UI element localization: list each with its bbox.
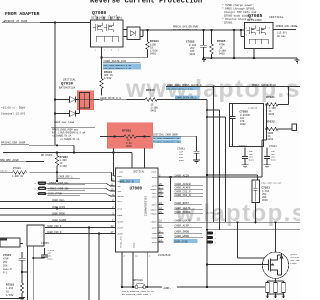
ground symbol right — [295, 58, 300, 63]
IC U7000 top labels — [119, 171, 157, 174]
gate resistor network box D7081 — [127, 27, 140, 40]
ground C7021 — [264, 165, 271, 168]
wire Q7080 to D7081 upper — [123, 29, 127, 31]
transistor Q7080 labels — [91, 10, 123, 19]
net label CHGR_DCID_R_N — [100, 96, 127, 100]
svg-text:CHGR_ACIN: CHGR_ACIN — [52, 206, 65, 209]
blue label CHGR_ACSB — [174, 239, 198, 243]
svg-text:PPVBL_P5S: PPVBL_P5S — [120, 235, 123, 248]
svg-text:U7000: U7000 — [130, 188, 143, 192]
svg-text:0402: 0402 — [249, 158, 255, 161]
svg-text:SMB_SVT_R: SMB_SVT_R — [120, 180, 134, 183]
testpoint pill ACSB — [207, 240, 214, 243]
svg-text:1 2: 1 2 — [134, 282, 137, 285]
wire into R7051 from left — [100, 136, 109, 138]
svg-text:0402: 0402 — [151, 109, 157, 112]
resistor R7065 (series) — [145, 98, 157, 102]
svg-text:CHGR_DCIN_OK_L: CHGR_DCIN_OK_L — [176, 97, 198, 100]
wire gate drive horizontal — [102, 57, 148, 59]
blue note gate drive — [166, 87, 200, 90]
resistor R7516 labels — [6, 284, 14, 298]
svg-text:CHG_GATE_DRIVE+3.3 mA: CHG_GATE_DRIVE+3.3 mA — [167, 87, 194, 90]
vertical Q7085 source to gnd bus — [253, 49, 255, 59]
wire ACSP long — [207, 229, 300, 231]
annotation 20mA max load — [54, 120, 75, 124]
diode body inside red box — [80, 93, 90, 109]
testpoint pill VFPWM — [38, 192, 47, 195]
svg-text:WMON: WMON — [152, 237, 158, 240]
svg-text:ACIN: ACIN — [117, 208, 123, 211]
testpoint pill SCL — [38, 181, 47, 184]
transistor Q7010 labels — [291, 253, 300, 265]
svg-text:PROT: PROT — [117, 175, 123, 178]
junction ACSP — [206, 229, 208, 231]
capacitor C7085 — [200, 30, 207, 58]
component outline box bottom-left — [27, 225, 44, 246]
svg-text:CSIN: CSIN — [152, 196, 158, 199]
node vertical ACIN divider — [262, 105, 267, 178]
junction gate branch — [206, 263, 208, 265]
capacitor C7021 — [264, 148, 270, 165]
IC right pin names — [151, 176, 158, 244]
svg-text:21322529: 21322529 — [158, 254, 171, 257]
vertical sense CSO_N down — [98, 234, 100, 300]
svg-text:CHGR_DCID_R_N: CHGR_DCID_R_N — [100, 97, 121, 100]
svg-text:Q7080.: Q7080. — [224, 22, 234, 25]
LGATE bus long — [164, 221, 301, 223]
svg-text:4: 4 — [118, 49, 120, 52]
pill pin numbers — [35, 182, 37, 196]
svg-text:O_GATOR: O_GATOR — [248, 107, 258, 110]
svg-text:ISL6259AHRTZ: ISL6259AHRTZ — [144, 196, 147, 216]
sense resistor stack bottom bar — [268, 293, 284, 297]
sense resistor R7011 — [266, 283, 270, 293]
wire routing L2 — [207, 117, 226, 222]
net label +PPBCIN_J5_CHGR — [3, 20, 28, 23]
table PP3V3 loads — [51, 127, 95, 129]
junction routing tap 1 — [206, 109, 208, 111]
net label PPBUS_AGATE_R right — [252, 84, 277, 87]
svg-text:3: 3 — [246, 34, 248, 37]
svg-text:LFPAK: LFPAK — [291, 262, 298, 265]
component box C7020 — [230, 104, 264, 147]
svg-text:LGATE: LGATE — [151, 221, 158, 224]
wire SDA to pin10 — [46, 188, 114, 191]
gnd bus bottom — [122, 286, 265, 288]
IC part number vertical — [144, 196, 147, 216]
junction stack gnd dots — [266, 296, 268, 298]
sense note row blue 2 — [153, 140, 182, 143]
long vertical gnd sense wire — [206, 100, 208, 288]
transistor Q7085 FET symbol B — [257, 26, 266, 36]
svg-text:SMOB: SMOB — [152, 232, 158, 235]
resistor R7022 — [267, 127, 293, 131]
ground R7516 — [19, 298, 25, 300]
thermistor box right — [292, 124, 297, 131]
resistor R7083 — [146, 30, 150, 58]
svg-text:1/16W: 1/16W — [104, 77, 112, 80]
capacitor C7056 — [41, 248, 48, 258]
svg-text:0402: 0402 — [240, 123, 246, 126]
svg-text:3: 3 — [111, 49, 113, 52]
bottom edge wire — [0, 298, 24, 300]
wire Q7080 to D7081 lower — [123, 36, 127, 38]
svg-text:SI7414DN: SI7414DN — [91, 16, 106, 19]
resistor R7516 — [20, 283, 24, 298]
capacitor C7023 labels — [261, 181, 282, 202]
junction LGATE/C7023 — [254, 221, 256, 223]
testpoint pill WMON — [207, 236, 214, 239]
wire gate to Q7010 — [207, 264, 263, 266]
net label CHGR_PROG — [52, 212, 65, 215]
capacitor C7015 — [19, 252, 26, 283]
blue note AGATE row 1 — [103, 63, 141, 66]
svg-text:2: 2 — [104, 49, 105, 52]
svg-text:ACG_GATE_AGATE+3.3 mA: ACG_GATE_AGATE+3.3 mA — [104, 67, 132, 70]
junction divider top — [265, 103, 267, 105]
svg-text:20mA max load: 20mA max load — [54, 120, 75, 124]
vertical from AGATE bus — [213, 87, 215, 223]
vertical sense CSO_P down — [88, 228, 90, 300]
sense resistor R7012 — [274, 283, 278, 293]
black tick left margin — [0, 237, 7, 240]
capacitor C7085 labels — [186, 40, 197, 55]
svg-text:PPBUS_AGATE_R 8A: PPBUS_AGATE_R 8A — [252, 84, 277, 87]
svg-text:SCL: SCL — [117, 185, 121, 188]
svg-text:8A max: 8A max — [277, 35, 286, 38]
svg-text:0402: 0402 — [268, 138, 274, 141]
svg-text:5: 5 — [35, 182, 37, 185]
junction Q7085 lower pin tap — [240, 29, 242, 31]
diode pack Q7030 labels — [59, 78, 76, 89]
IC bottom pin stubs — [122, 252, 147, 258]
svg-text:+1.5mA@3.3V uA: +1.5mA@3.3V uA — [60, 138, 80, 141]
capacitor C7022 — [242, 148, 248, 165]
svg-text:6: 6 — [35, 188, 37, 191]
net label CHGR_ACIN — [52, 206, 65, 209]
vertical C7023 to LGATE bus — [255, 203, 257, 223]
capacitor C7081 labels — [177, 147, 185, 161]
svg-text:≈13.6V +/- 50mV: ≈13.6V +/- 50mV — [1, 106, 26, 110]
wire PP3V42 — [29, 145, 74, 152]
transistor Q7085 FET symbol A — [247, 26, 256, 36]
sheet note bottom — [122, 290, 154, 296]
resistor R7089 labels — [0, 167, 24, 178]
svg-text:2: 2 — [215, 237, 217, 240]
capacitor C7020 symbol — [230, 104, 236, 147]
transistor Q7085 labels — [247, 13, 284, 22]
svg-text:PGND: PGND — [133, 242, 136, 248]
left annotation 13.6V — [1, 106, 26, 116]
bus PPBUS_AGATE_R — [166, 86, 300, 88]
svg-text:R7089: R7089 — [13, 167, 21, 170]
net label CHGR_CELL — [52, 199, 65, 202]
IC U7000 body — [116, 168, 159, 252]
svg-text:CHGR_CSO_P: CHGR_CSO_P — [47, 225, 62, 228]
svg-text:5: 5 — [269, 27, 271, 30]
svg-text:Q7085: Q7085 — [248, 13, 263, 19]
IC bottom rotated labels — [120, 235, 136, 248]
svg-text:1/16W: 1/16W — [60, 165, 68, 168]
transistor Q7010 circle — [262, 252, 288, 278]
ground bus under Q7085 — [204, 57, 298, 59]
main bus PPBUS top (Q7080 out to Q7085) — [140, 29, 245, 31]
net label PRECH_SYS_OR_PWR — [173, 25, 198, 30]
resistor R7085 labels — [217, 40, 226, 56]
wire C7015 to rail — [22, 271, 28, 273]
svg-text:SCOMP: SCOMP — [117, 221, 124, 224]
resistor R7051 labels — [122, 128, 132, 148]
svg-text:BOOT: BOOT — [152, 204, 158, 207]
junction gnd bus d — [211, 57, 213, 59]
highlight red box around R7051 — [107, 123, 153, 149]
net label CHGR_REF_L — [59, 175, 74, 178]
wire PPBCIN to Q7080 — [40, 22, 91, 24]
junction VDD/R7082 — [56, 151, 58, 153]
ground C7022 — [242, 165, 249, 168]
junction gnd bus b — [253, 57, 255, 59]
wire SCL to pin11 — [46, 183, 114, 186]
resistor R7081 — [100, 79, 104, 100]
vertical Q7010 source down — [275, 278, 277, 281]
junction rail B to C7056 — [32, 257, 34, 259]
svg-text:0402: 0402 — [269, 113, 275, 116]
junction VDD/PP3V42 — [73, 151, 75, 153]
wire sense to C7081 — [196, 136, 198, 151]
vertical branch to Q7010 — [238, 222, 265, 258]
svg-text:C7022: C7022 — [239, 145, 247, 148]
svg-text:6: 6 — [149, 255, 151, 258]
net label GND — [163, 286, 172, 290]
note text top right — [222, 3, 257, 25]
ground tick left — [202, 60, 206, 62]
junction R7083 tap — [146, 29, 148, 31]
underline IC right labels — [174, 186, 203, 238]
testpoint pin numbers — [215, 232, 217, 244]
capacitor C7015 labels — [3, 254, 12, 275]
junction PP3V42/PPBCIN rail — [56, 144, 58, 146]
diode D7030A — [55, 97, 79, 103]
net label CHGR_DCIN_OK_L blue — [175, 95, 200, 99]
junction VDD/pin12 — [112, 151, 114, 153]
svg-text:C7056: C7056 — [41, 242, 49, 245]
svg-text:PHASE: PHASE — [151, 213, 158, 216]
net label PP3V42_S5R — [1, 141, 26, 144]
IC right pin numbers — [159, 174, 162, 242]
svg-text:◀PPBCIN J5 CHGR: ◀PPBCIN J5 CHGR — [3, 20, 28, 23]
blue note AGATE row 2 — [103, 67, 141, 70]
svg-text:0402: 0402 — [150, 52, 157, 55]
svg-text:[nominal 13.5V]: [nominal 13.5V] — [1, 112, 26, 116]
fuse BM7080 label — [134, 279, 144, 284]
svg-text:* DRUS through Q7085,: * DRUS through Q7085, — [222, 7, 256, 11]
transistor Q7080 FET symbol B — [104, 23, 113, 33]
svg-text:5: 5 — [124, 255, 126, 258]
svg-text:UGATE: UGATE — [151, 209, 158, 212]
wire ACIN row to divider — [164, 176, 263, 178]
junction R7051 right — [143, 135, 145, 137]
vertical rail A bottom-left — [27, 246, 29, 300]
sense resistor stack top bar — [268, 281, 284, 283]
wire Q7085 lower pin — [241, 30, 245, 37]
wire R7051 sense right down — [144, 148, 146, 168]
vertical pad to gnd bus — [146, 258, 148, 287]
svg-text:ACAFE: ACAFE — [151, 188, 158, 191]
svg-text:1: 1 — [215, 232, 217, 235]
resistor R7083 labels — [150, 40, 159, 55]
svg-text:VDDP: VDDP — [151, 171, 157, 174]
svg-text:1.00K 1%: 1.00K 1% — [12, 175, 24, 178]
svg-text:R7022: R7022 — [266, 121, 275, 124]
wire BOOT node to C7023 — [207, 175, 258, 180]
sense note row black — [153, 133, 178, 136]
transistor Q7010 FET symbol — [263, 253, 283, 275]
svg-text:CHGR_ACSB: CHGR_ACSB — [174, 240, 188, 243]
junction gnd bus pins — [121, 286, 123, 288]
ground C7081 — [193, 160, 200, 163]
Q7080 gate vertical wire — [101, 47, 103, 79]
vertical Q7010 drain — [275, 222, 277, 252]
capacitor C7081 — [194, 151, 200, 160]
transistor Q7085 pin numbers — [246, 27, 272, 54]
svg-text:16: 16 — [135, 255, 138, 258]
svg-text:‹GND›: ‹GND› — [163, 286, 172, 290]
svg-text:SMB_5V: SMB_5V — [0, 169, 8, 172]
svg-text:Reverse Current Protection: Reverse Current Protection — [90, 0, 202, 6]
wire D7081 to bus — [140, 30, 148, 37]
svg-text:1: 1 — [247, 51, 249, 54]
junction LGATE branch — [236, 221, 238, 223]
svg-text:ACSB: ACSB — [152, 241, 158, 244]
svg-text:1/16W: 1/16W — [6, 294, 14, 297]
svg-text:0603: 0603 — [262, 199, 268, 202]
resistor R7022 labels — [266, 121, 275, 141]
svg-text:7: 7 — [102, 14, 103, 17]
wire row CELL — [0, 201, 114, 203]
capacitor C7023 symbol — [254, 181, 258, 202]
wire Q7085 output — [273, 29, 296, 31]
svg-text:4: 4 — [246, 27, 248, 30]
junction gnd bus a — [233, 57, 235, 59]
wire rail B to C7056 — [33, 257, 44, 259]
svg-text:CHGR_CELL: CHGR_CELL — [52, 199, 65, 202]
net labels IC right rows — [175, 174, 192, 238]
resistor R7021 labels — [266, 96, 276, 116]
svg-text:1: 1 — [95, 49, 97, 52]
transistor Q7080 body — [91, 20, 124, 47]
svg-text:C7021: C7021 — [269, 145, 277, 148]
svg-text:0402: 0402 — [179, 159, 185, 162]
svg-text:PROG: PROG — [117, 214, 123, 217]
wire row SCOMP — [0, 221, 114, 223]
junction R7085 tap — [210, 29, 212, 31]
diode D7030B — [55, 109, 80, 117]
junction gate node — [100, 57, 102, 59]
svg-text:VDD: VDD — [119, 171, 124, 174]
junction R7051 left — [113, 135, 115, 137]
junction C7085 tap — [202, 29, 204, 31]
svg-text:VFPWM: VFPWM — [117, 195, 124, 198]
IC bottom pin numbers — [124, 255, 151, 258]
transistor Q7080 internal joins — [96, 36, 118, 42]
svg-text:0402: 0402 — [219, 52, 225, 55]
junction REF node — [56, 180, 58, 182]
svg-text:2010: 2010 — [126, 145, 132, 148]
transistor Q7080 pin stubs top — [97, 17, 118, 21]
junction R7081 to DCID wire — [100, 98, 102, 100]
svg-text:FROM ADAPTER: FROM ADAPTER — [5, 11, 40, 17]
svg-text:CRITICAL: CRITICAL — [63, 78, 76, 81]
svg-text:BAT54CFILM: BAT54CFILM — [59, 86, 76, 89]
fuse BM7080 — [135, 286, 138, 289]
junction R7082 bottom — [56, 171, 58, 173]
text 21322529 — [158, 254, 171, 257]
svg-text:NO STUFF: NO STUFF — [41, 154, 53, 157]
wire CHGR_DCID net — [94, 99, 146, 101]
svg-text:R7021: R7021 — [266, 96, 275, 99]
svg-text:* 5VSB charge power:: * 5VSB charge power: — [222, 3, 254, 7]
svg-text:SI7414DN: SI7414DN — [247, 19, 262, 22]
junction bus gnd return tap — [233, 29, 235, 31]
net label CHGR_CSO_P — [47, 225, 62, 228]
vertical ACIN branch — [170, 177, 172, 201]
wire SMBUS row with R7089 — [0, 171, 13, 173]
vertical PGND to gnd bus — [132, 258, 134, 287]
note AR PHASE — [206, 211, 221, 214]
IC left pin names — [117, 175, 124, 236]
junction C7015 branch — [21, 271, 23, 273]
svg-text:CHGR_SCOMP: CHGR_SCOMP — [52, 219, 67, 222]
junction CSO_N — [98, 232, 100, 234]
net label PPBUS_G3H_CHGR — [276, 25, 298, 38]
junction LGATE/Q7010 drain — [274, 221, 276, 223]
resistor R7085 — [210, 30, 214, 58]
junction AGATE bus tap — [213, 86, 215, 88]
resistor R7081 labels — [104, 71, 113, 80]
wire VFPWM to pin4 — [46, 194, 114, 196]
vertical rail B bottom-left — [32, 246, 34, 300]
resistor R7065 labels — [146, 89, 158, 112]
svg-text:CELL: CELL — [117, 200, 123, 203]
transistor Q7080 pin numbers — [95, 14, 120, 51]
junction to D7030 anode 1 — [54, 98, 56, 100]
blue label SMB_SVT_R — [120, 179, 141, 183]
wire VDD rail to U7000 — [3, 153, 132, 169]
svg-text:0402: 0402 — [271, 158, 277, 161]
net label SMB_BMC_ACWD — [0, 159, 19, 162]
junction divider mid — [265, 128, 267, 130]
diode inside D7081 — [130, 31, 135, 37]
vertical bus return — [233, 30, 235, 58]
svg-text:AR_PHASE 20V: AR_PHASE 20V — [206, 211, 221, 214]
net label LNBR_AGRH — [167, 84, 202, 87]
resistor R7021 — [267, 103, 279, 107]
svg-text:VCOMP: VCOMP — [117, 233, 124, 236]
resistor R7082 (NO STUFF) — [41, 154, 53, 157]
transistor Q7085 body — [245, 23, 274, 49]
svg-text:CRITICAL: CRITICAL — [133, 171, 145, 174]
junction to D7030 anode 2 — [54, 112, 56, 114]
resistor divider vertical — [278, 87, 289, 105]
wire row PROG — [0, 214, 114, 216]
IC U7000 refdes — [130, 188, 143, 192]
sense note row blue 1 — [153, 137, 182, 140]
wire DCID to right column — [157, 99, 207, 101]
svg-text:CRITICAL: CRITICAL — [269, 16, 284, 19]
svg-text:SMALL_BODY_COL_CAP: SMALL_BODY_COL_CAP — [261, 181, 282, 184]
IC left pin stubs and numbers — [114, 176, 116, 234]
svg-text:R7051: R7051 — [122, 128, 131, 132]
